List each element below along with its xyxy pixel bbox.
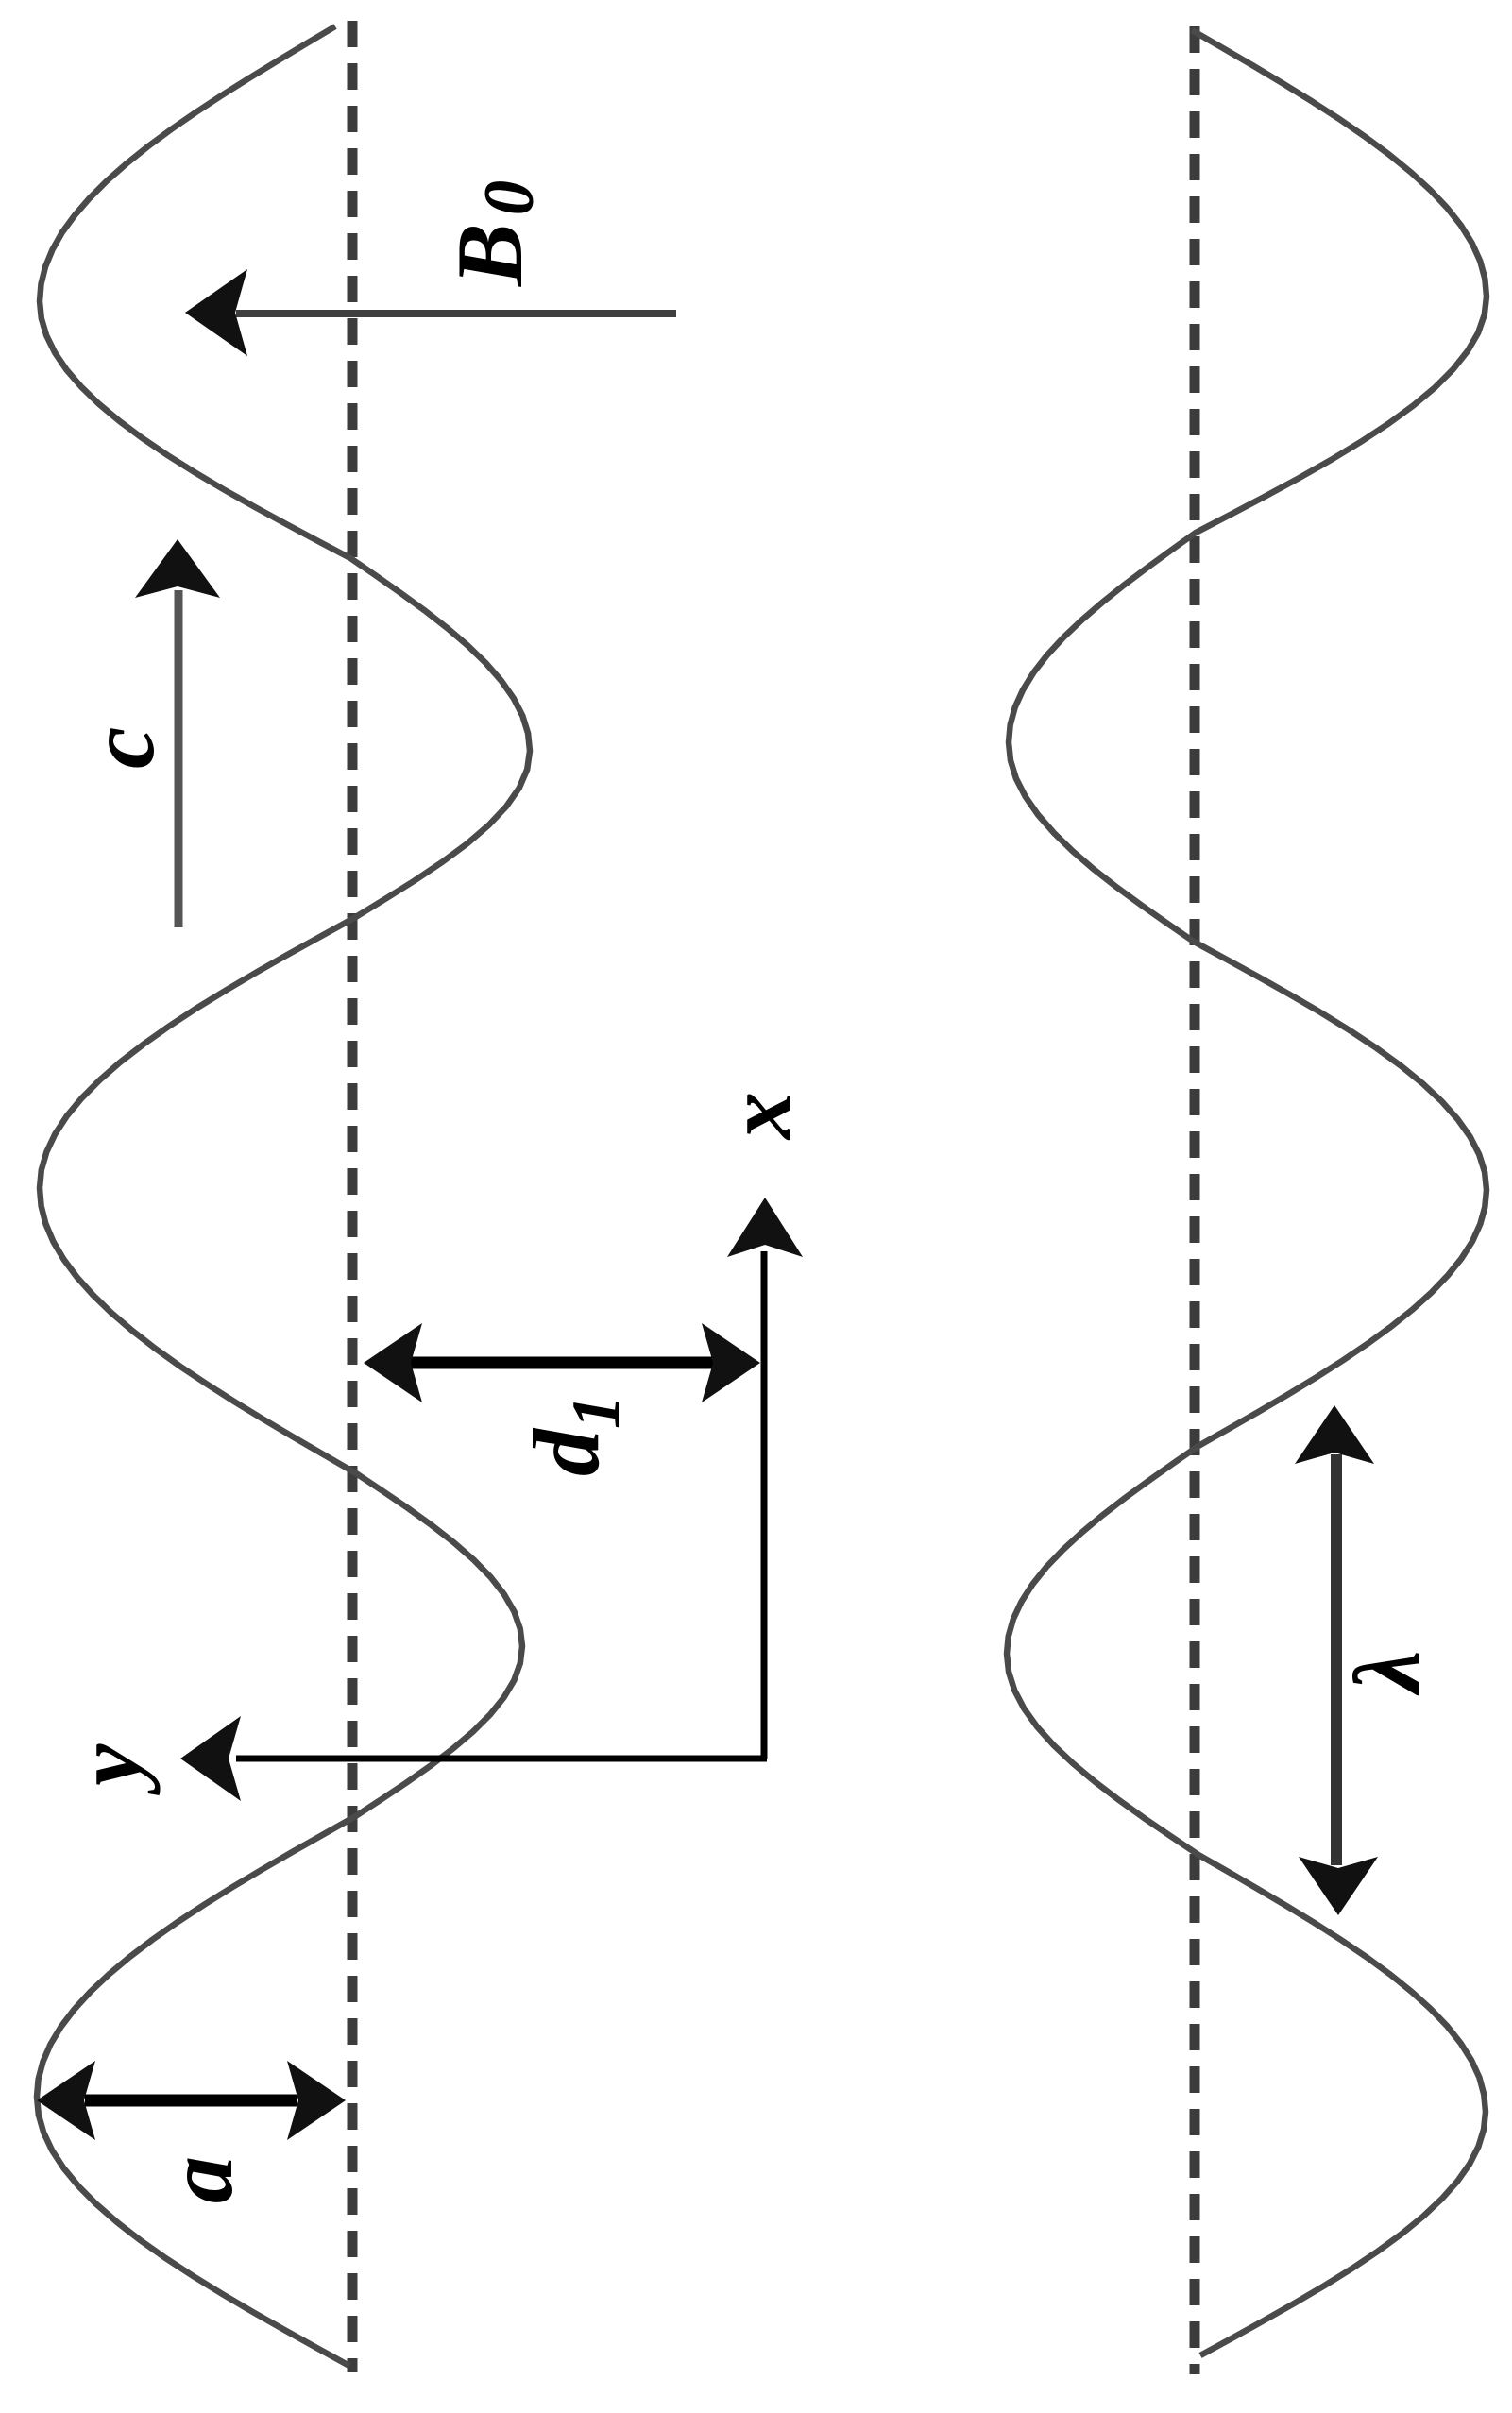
a double arrow shaft bbox=[85, 2095, 297, 2107]
lambda double arrow shaft bbox=[1331, 1454, 1342, 1865]
y axis shaft bbox=[236, 1756, 767, 1762]
lambda bottom arrowhead bbox=[1299, 1857, 1378, 1915]
svg-text:a: a bbox=[147, 2156, 252, 2203]
c arrowhead bbox=[135, 539, 220, 598]
svg-text:x: x bbox=[706, 1092, 811, 1141]
wire B0 arrow shaft bbox=[236, 310, 676, 317]
d1 double arrow shaft bbox=[406, 1357, 722, 1369]
centerline of upper wall (left dashed line) bbox=[348, 21, 358, 2372]
svg-text:c: c bbox=[69, 727, 174, 769]
lambda top arrowhead bbox=[1295, 1405, 1374, 1464]
d1 right arrowhead bbox=[702, 1323, 760, 1402]
y axis arrowhead bbox=[180, 1716, 241, 1801]
centerline of lower wall (right dashed line) bbox=[1190, 26, 1200, 2374]
a right arrowhead bbox=[287, 2061, 346, 2140]
d1 left arrowhead bbox=[364, 1323, 422, 1402]
B0 arrowhead bbox=[185, 269, 247, 356]
c arrow shaft bbox=[175, 590, 183, 927]
wavy wall (left sinusoid) bbox=[37, 26, 530, 2366]
svg-text:λ: λ bbox=[1334, 1651, 1439, 1696]
wavy wall (right sinusoid) bbox=[1007, 30, 1487, 2355]
x axis arrowhead bbox=[727, 1198, 803, 1257]
x axis shaft bbox=[761, 1251, 768, 1759]
a left arrowhead bbox=[37, 2061, 95, 2140]
